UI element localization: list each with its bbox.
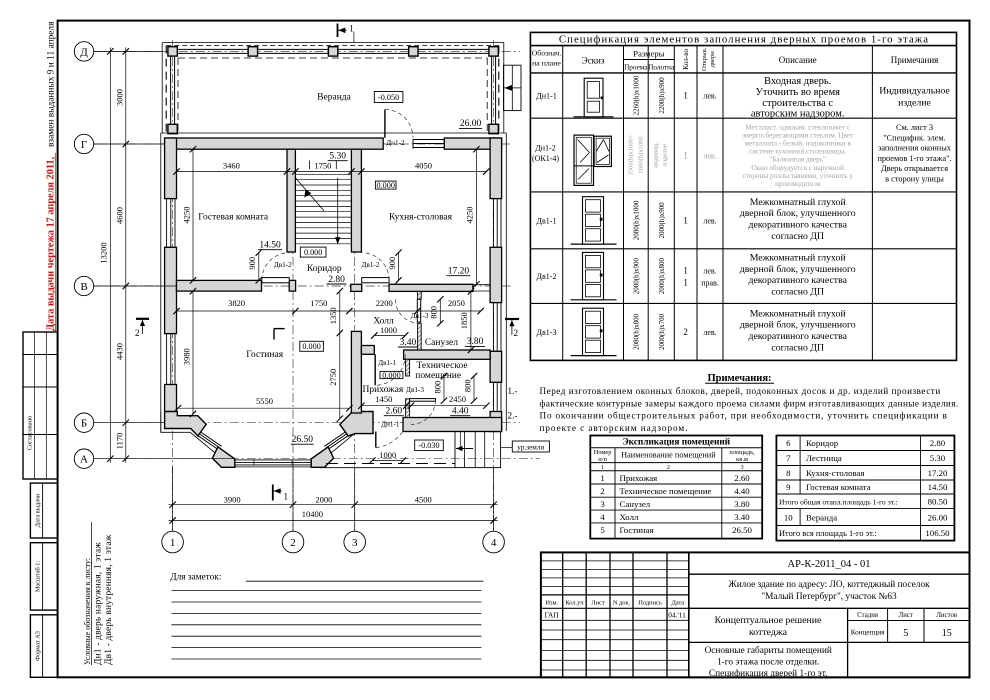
north wall (axis Г) west part (165, 138, 384, 149)
entrance porch steps (455, 432, 501, 468)
axis line 2 (292, 138, 294, 531)
svg-text:26.00: 26.00 (928, 513, 948, 523)
east wall window E3 (493, 382, 501, 411)
issue date stamp block (Дата выдачи) (30, 483, 57, 538)
svg-text:Веранда: Веранда (806, 513, 837, 523)
title block content description (705, 642, 848, 679)
title block frame (541, 552, 970, 677)
svg-text:на плане: на плане (532, 59, 561, 68)
svg-text:Спецификация элементов заполне: Спецификация элементов заполнения дверны… (559, 33, 929, 45)
notes area Для заметок (170, 573, 483, 660)
svg-text:Стадия: Стадия (857, 612, 878, 619)
building outer offset contour east (505, 133, 507, 431)
area label 14.50 (Гостевая) (258, 241, 282, 251)
svg-text:дверной блок, улучшенного: дверной блок, улучшенного (740, 320, 856, 331)
svg-text:80.50: 80.50 (928, 497, 948, 507)
axis circle Б (74, 413, 164, 432)
veranda outer deck edge (162, 43, 504, 134)
svg-text:1450: 1450 (375, 394, 392, 404)
svg-text:1: 1 (170, 537, 176, 549)
svg-text:индивид.: индивид. (653, 142, 660, 168)
svg-text:1: 1 (683, 278, 688, 288)
hatched partition Прихожая upper (406, 359, 410, 376)
veranda railing east (492, 49, 496, 133)
svg-text:2.80: 2.80 (930, 438, 946, 448)
svg-text:Входная дверь.: Входная дверь. (764, 76, 831, 87)
area label 3.40 (Холл) (398, 338, 418, 348)
axis line 3 (354, 138, 356, 531)
spec row Дв1-1 sizes (633, 200, 666, 240)
svg-text:См. лист 3: См. лист 3 (896, 123, 933, 132)
svg-text:-0.030: -0.030 (418, 441, 439, 450)
svg-text:Санузел: Санузел (620, 499, 651, 509)
svg-text:"Балконная дверь": "Балконная дверь" (769, 156, 826, 164)
bay NW corner block (165, 412, 207, 436)
svg-text:26.00: 26.00 (460, 119, 482, 129)
svg-text:1850: 1850 (459, 312, 469, 329)
svg-text:Дв1-2: Дв1-2 (274, 261, 292, 269)
dim 800 (Техническое door) (462, 373, 477, 404)
svg-text:Дв1 - дверь внутренняя, 1 этаж: Дв1 - дверь внутренняя, 1 этаж (104, 534, 114, 665)
spec row 2 description (grey) (742, 124, 854, 188)
hatched partition Санузел upper (418, 291, 422, 299)
svg-text:1: 1 (600, 473, 604, 483)
specification table grid (530, 32, 956, 360)
svg-text:лев.: лев. (703, 328, 716, 337)
axis line А (94, 458, 540, 460)
svg-text:Итого общая отапл.площадь 1-го: Итого общая отапл.площадь 1-го эт.: (779, 498, 898, 507)
entrance door Дн1-1 leaf and swing (376, 432, 403, 448)
svg-text:Дн1-1: Дн1-1 (536, 92, 556, 101)
svg-text:Номер: Номер (594, 449, 612, 456)
veranda post 2 (top row) (248, 47, 257, 56)
west wall lower segment (165, 385, 177, 414)
svg-text:стороны ролльставнями, уточнит: стороны ролльставнями, уточнить у (743, 172, 854, 180)
axis circle В (74, 276, 176, 295)
label Дв1-2 (left) (274, 261, 292, 269)
spec row 2 remark (877, 123, 951, 184)
svg-text:Дверь открывается: Дверь открывается (881, 164, 948, 173)
section mark 1 (bottom) (273, 485, 289, 503)
svg-text:4050: 4050 (415, 160, 432, 170)
dim row below wall В 3820/1750/2200/2050 (173, 298, 484, 314)
title block stage/sheet cells (848, 608, 970, 642)
svg-text:17.20: 17.20 (928, 468, 948, 478)
bottom dim line 3900/2000/4500 (169, 494, 498, 508)
axis circle Д (74, 42, 163, 61)
svg-text:Индивидуальное: Индивидуальное (879, 86, 950, 97)
svg-text:0.000: 0.000 (302, 342, 320, 351)
svg-text:4: 4 (600, 512, 605, 522)
svg-text:17.20: 17.20 (448, 267, 470, 277)
svg-text:Формат А3: Формат А3 (35, 631, 42, 661)
spec row Дв1-3 sketch (interior door) (571, 308, 617, 355)
wall В west part (Гостевая/Гостиная) (177, 280, 262, 291)
spec row Дв1-1 qty/side (683, 216, 716, 226)
svg-text:декоративного качества: декоративного качества (748, 220, 847, 231)
svg-text:1750: 1750 (310, 298, 327, 308)
spec row 1 sizes (633, 75, 666, 115)
svg-text:2.-: 2.- (508, 411, 518, 421)
svg-text:согласно ДП: согласно ДП (771, 231, 824, 242)
svg-text:1: 1 (683, 151, 688, 161)
svg-text:1600(h)x1000: 1600(h)x1000 (638, 136, 645, 174)
svg-text:2: 2 (667, 464, 670, 471)
label Дв1-1 (Прихожая) (378, 359, 396, 367)
svg-text:лев.: лев. (703, 92, 716, 101)
svg-text:Лестница: Лестница (806, 453, 842, 463)
area label 2.80 (Коридор) (327, 275, 347, 285)
svg-text:1000: 1000 (380, 325, 397, 335)
svg-text:2: 2 (514, 328, 519, 338)
svg-text:3: 3 (352, 537, 358, 549)
svg-text:Дн1-1: Дн1-1 (381, 421, 400, 429)
svg-text:2000: 2000 (315, 494, 332, 504)
svg-text:2.80: 2.80 (328, 275, 345, 285)
svg-text:заполнения оконных: заполнения оконных (878, 144, 952, 153)
svg-text:помещение: помещение (415, 371, 461, 381)
left dim line 3000/4600/4430/1170 (114, 47, 129, 462)
building outer offset contour north (161, 132, 507, 134)
svg-text:9: 9 (786, 482, 791, 492)
svg-text:(ОК1-4): (ОК1-4) (532, 154, 559, 163)
svg-text:Г: Г (81, 139, 87, 151)
staircase break line and direction arrows (295, 178, 340, 245)
east wall segment 3 (490, 351, 502, 382)
svg-text:Лист: Лист (899, 612, 913, 619)
ground level dashed line (326, 463, 455, 465)
svg-text:0.000: 0.000 (304, 248, 322, 257)
svg-text:Концептуальное решение: Концептуальное решение (715, 615, 822, 626)
veranda entrance steps (east side) (504, 65, 522, 110)
veranda post SE corner (489, 124, 498, 133)
east wall bottom corner segment (490, 412, 502, 432)
svg-text:Мет.пласт. однокам. стеклопаке: Мет.пласт. однокам. стеклопакет с (745, 124, 850, 132)
svg-text:5: 5 (903, 628, 908, 639)
svg-text:15: 15 (942, 628, 952, 639)
svg-text:2: 2 (290, 537, 296, 549)
notes paragraph 2 (508, 411, 948, 433)
svg-text:Кол-во: Кол-во (682, 48, 690, 69)
spec row Дв1-1 description (740, 197, 856, 242)
svg-text:3: 3 (600, 499, 605, 509)
dim 1000 (entrance door) (369, 450, 406, 464)
svg-text:фактические контурные замеры к: фактические контурные замеры каждого про… (540, 398, 959, 408)
section mark 2 (right) (505, 319, 519, 338)
west wall upper segment (165, 138, 177, 199)
svg-text:Эскиз: Эскиз (582, 56, 605, 66)
spec row 1 description (751, 76, 845, 119)
svg-text:Коридор: Коридор (806, 438, 839, 448)
north wall (axis Г) east part (444, 138, 501, 149)
svg-text:2000(h)x800: 2000(h)x800 (658, 258, 666, 295)
svg-text:Проема: Проема (624, 64, 648, 72)
south wall west stub at entrance (361, 418, 372, 432)
dim 800 (Прихожая door) (432, 373, 447, 404)
svg-text:энергосберегающими стеклом. Цв: энергосберегающими стеклом. Цвет (742, 132, 854, 140)
svg-text:Основные габариты помещений: Основные габариты помещений (705, 645, 832, 656)
title block object name (689, 579, 970, 609)
svg-text:Условные обозначения к листу:: Условные обозначения к листу: (83, 558, 92, 665)
svg-text:Дн1 - дверь наружная, 1 этаж: Дн1 - дверь наружная, 1 этаж (94, 542, 104, 665)
veranda roof overhang (dashed) (166, 46, 500, 133)
svg-text:Дн1-2: Дн1-2 (535, 144, 555, 153)
spec row Дв1-2 designation (537, 272, 557, 281)
svg-text:Техническое помещение: Техническое помещение (620, 486, 712, 496)
title block document code АР-К (689, 559, 970, 574)
spec row Дв1-3 qty/side (683, 327, 716, 337)
svg-text:кв.м: кв.м (736, 456, 748, 463)
dim 1350/2750 (Гостиная east) (328, 288, 343, 422)
svg-text:Дв1-3: Дв1-3 (537, 328, 557, 337)
dim 1000 (Холл door) (371, 325, 408, 339)
svg-text:1: 1 (349, 25, 354, 35)
svg-text:Дв1-1: Дв1-1 (378, 359, 396, 367)
specification table title (559, 33, 929, 45)
axis circle 2 (282, 467, 304, 553)
veranda post 1 (top row) (168, 47, 177, 56)
veranda post 3 (top row) (328, 47, 337, 56)
svg-text:Согласовано: Согласовано (27, 416, 34, 451)
hatched partition Санузел lower (418, 323, 422, 350)
svg-text:Дв1-1: Дв1-1 (537, 216, 557, 225)
svg-text:согласно ДП: согласно ДП (771, 287, 824, 298)
svg-text:1: 1 (683, 216, 688, 226)
top interior dim row 3460/1750/4050 (173, 160, 489, 174)
svg-text:2000(h)x900: 2000(h)x900 (658, 202, 666, 239)
svg-text:Дв1-3: Дв1-3 (406, 386, 424, 394)
veranda post 5 (top row) (489, 47, 498, 56)
svg-text:"Малый Петербург", участок №63: "Малый Петербург", участок №63 (761, 591, 897, 602)
bay window east diagonal (324, 432, 348, 451)
dim 900 (left corridor door) (247, 249, 262, 283)
svg-text:2200(h)x900: 2200(h)x900 (658, 77, 666, 114)
label Кухня-столовая (389, 213, 453, 223)
svg-text:106.50: 106.50 (925, 528, 950, 538)
axis line 1 (vertical dash-dot) (172, 40, 174, 531)
svg-text:Перед изготовлением оконных бл: Перед изготовлением оконных блоков, двер… (540, 386, 941, 396)
label Дн1-2 (386, 139, 405, 147)
svg-text:7: 7 (786, 453, 791, 463)
level box 0.000 (Прихожая) (380, 371, 403, 380)
svg-text:Кухня-столовая: Кухня-столовая (806, 468, 864, 478)
label Техническое помещение (415, 361, 467, 381)
area label 5.30 (Лестница) (328, 152, 348, 162)
svg-text:4.40: 4.40 (734, 486, 750, 496)
svg-text:2080(h)x900: 2080(h)x900 (633, 258, 641, 295)
door Дв1-2 (Гостевая) leaf and swing (262, 253, 290, 283)
axis circle 1 (162, 467, 184, 553)
section mark 2 (left) (135, 319, 149, 338)
axis circle А (74, 449, 234, 468)
axis circle 4 (483, 467, 505, 553)
area label 17.20 (Кухня) (446, 267, 470, 277)
svg-text:4500: 4500 (415, 494, 432, 504)
svg-text:Холл: Холл (373, 317, 394, 327)
svg-text:По окончании общестроительных: По окончании общестроительных работ, при… (540, 411, 948, 421)
area label 3.80 (Санузел) (465, 337, 485, 347)
wall В east gap lintel lines (473, 285, 490, 291)
svg-text:2450: 2450 (449, 394, 466, 404)
level box 0.000 (Гостиная) (300, 341, 324, 351)
veranda post SW corner (168, 124, 177, 133)
dim 800 (Санузел door) (429, 296, 444, 326)
svg-text:3820: 3820 (228, 298, 245, 308)
balcony window ОК1-4 (north wall) (413, 139, 444, 149)
svg-text:2260(h)x1000: 2260(h)x1000 (633, 75, 641, 115)
veranda inner dashed line (178, 58, 487, 133)
spec row Дв1-1 designation (537, 216, 557, 225)
svg-text:Гостевая комната: Гостевая комната (198, 213, 269, 223)
axis line Б (94, 422, 520, 424)
west wall middle segment (165, 247, 177, 333)
south offset contour to porch (319, 467, 455, 469)
svg-text:Окно оборудуется с наружной: Окно оборудуется с наружной (751, 164, 844, 172)
svg-text:Дн1-2: Дн1-2 (386, 139, 405, 147)
svg-text:Размеры: Размеры (633, 49, 664, 59)
spec row Дв1-2 description (740, 253, 856, 298)
door Дв1-2 (Кухня) leaf and swing (362, 253, 390, 283)
east wall segment 2 (490, 247, 502, 302)
east wall upper segment (490, 138, 502, 199)
svg-text:4250: 4250 (465, 207, 475, 224)
label Дв1-2 (right) (362, 261, 380, 269)
svg-text:взамен выданных 9 и 11 апреля: взамен выданных 9 и 11 апреля (47, 21, 57, 147)
svg-text:1: 1 (601, 464, 604, 471)
svg-text:прав.: прав. (701, 278, 719, 287)
svg-text:10400: 10400 (302, 509, 323, 519)
spec row 2 sketch (window unit ОК1-4) (574, 135, 611, 185)
svg-text:14.50: 14.50 (259, 241, 281, 251)
svg-text:Спецификация дверей 1-го эт.: Спецификация дверей 1-го эт. (709, 668, 828, 679)
svg-text:1750: 1750 (314, 160, 331, 170)
svg-text:5.30: 5.30 (329, 152, 346, 162)
svg-text:Межкомнатный глухой: Межкомнатный глухой (750, 308, 847, 319)
notes title Примечания (705, 373, 774, 384)
svg-text:2: 2 (600, 486, 604, 496)
explication table (right half) (776, 436, 954, 541)
area label 4.40 (Техническое) (450, 407, 470, 417)
svg-text:800: 800 (429, 306, 439, 319)
svg-text:"Специфик. элем.: "Специфик. элем. (883, 133, 945, 142)
bay window south (235, 459, 311, 465)
dim 1450/2450 (Прихожая row) (358, 394, 489, 409)
axis line 4 (493, 40, 495, 531)
dim 1850 (Санузел) (459, 288, 474, 353)
svg-text:1: 1 (683, 266, 688, 276)
svg-text:3500(h)x1000+: 3500(h)x1000+ (628, 134, 635, 175)
svg-text:2050: 2050 (448, 298, 465, 308)
bay window west diagonal (197, 432, 221, 451)
explication table (left half) (590, 436, 762, 539)
spec row 1 qty/side (683, 91, 716, 101)
svg-text:декоративного качества: декоративного качества (748, 331, 847, 342)
svg-text:производителя: производителя (775, 180, 821, 188)
svg-text:10: 10 (784, 513, 793, 523)
label Дв1-3 (Санузел) (411, 312, 429, 320)
svg-text:5550: 5550 (256, 396, 273, 406)
svg-text:2080(h)x1000: 2080(h)x1000 (633, 200, 641, 240)
svg-text:3.80: 3.80 (734, 499, 750, 509)
axis line Г (94, 143, 510, 145)
axis circle Г (74, 134, 164, 153)
svg-text:проекте с авторским надзором.: проекте с авторским надзором. (540, 423, 689, 433)
svg-text:ур.земли: ур.земли (517, 443, 544, 451)
spec row 2 designation Дн1-2 (ОК1-4) (532, 144, 559, 164)
spec row Дв1-2 sketch (interior door) (571, 252, 617, 299)
dim 5550 (Гостиная) (175, 396, 353, 412)
svg-text:Листов: Листов (936, 612, 957, 619)
area label 26.50 (Гостиная) (291, 435, 314, 445)
svg-text:3900: 3900 (224, 494, 241, 504)
axis line Д (horizontal dash-dot) (94, 50, 520, 52)
label Гостевая комната (198, 213, 269, 223)
svg-text:Концепция: Концепция (851, 629, 885, 637)
svg-text:3.80: 3.80 (467, 337, 484, 347)
svg-text:2750: 2750 (328, 369, 338, 386)
Прихожая north wall stub (361, 346, 374, 355)
svg-text:-0.050: -0.050 (378, 93, 399, 102)
area label 2.60 (Прихожая) (384, 407, 404, 417)
wall В east part (Кухня/Холл) (351, 284, 362, 291)
svg-text:26.50: 26.50 (292, 435, 314, 445)
svg-text:Гостевая комната: Гостевая комната (806, 482, 871, 492)
Гостиная corner symbol (274, 329, 285, 340)
svg-text:лев.: лев. (703, 152, 716, 161)
veranda railing north (168, 49, 498, 53)
svg-text:Гостиная: Гостиная (620, 525, 654, 535)
svg-text:900: 900 (247, 257, 257, 270)
svg-text:1170: 1170 (114, 433, 124, 450)
label Веранда (317, 93, 351, 103)
svg-text:Коридор: Коридор (307, 264, 342, 274)
staircase treads (295, 174, 351, 244)
area label 26.00 (Веранда) (459, 119, 482, 129)
format stamp block (Формат А3) (30, 615, 57, 678)
svg-text:26.50: 26.50 (732, 525, 752, 535)
west wall window W1 (165, 199, 175, 248)
svg-text:Межкомнатный глухой: Межкомнатный глухой (750, 253, 847, 264)
label Коридор (307, 264, 342, 274)
svg-text:А: А (80, 454, 88, 466)
wall north of Техническое (404, 350, 491, 359)
svg-text:2.60: 2.60 (734, 473, 750, 483)
wall В west pier (289, 280, 295, 291)
svg-text:в сторону улицы: в сторону улицы (885, 175, 944, 184)
spec row 1 sketch (entrance door) (573, 78, 613, 117)
svg-text:системе кухонной столешницы.: системе кухонной столешницы. (749, 148, 846, 156)
svg-text:2200: 2200 (376, 298, 393, 308)
svg-text:1-го этажа после отделки.: 1-го этажа после отделки. (717, 657, 819, 667)
dim 3980 (Гостиная west) (181, 288, 196, 417)
svg-text:ГАП: ГАП (545, 611, 560, 620)
svg-text:4430: 4430 (114, 343, 124, 360)
svg-text:13200: 13200 (99, 242, 109, 263)
spec row 1 remark (879, 86, 950, 109)
svg-text:дверной блок, улучшенного: дверной блок, улучшенного (740, 208, 856, 219)
Гостиная east wall (351, 331, 361, 413)
veranda railing west (171, 49, 175, 133)
stair wall west (287, 149, 295, 252)
svg-text:Подпись: Подпись (638, 600, 662, 607)
svg-text:5.30: 5.30 (930, 453, 946, 463)
svg-text:Обознач.: Обознач. (532, 49, 562, 58)
svg-text:Гостиная: Гостиная (246, 350, 283, 360)
svg-text:авторским надзором.: авторским надзором. (751, 108, 845, 119)
stair wall east (351, 149, 361, 252)
ур.земли label box (501, 441, 550, 452)
title block sheet name (689, 615, 970, 642)
